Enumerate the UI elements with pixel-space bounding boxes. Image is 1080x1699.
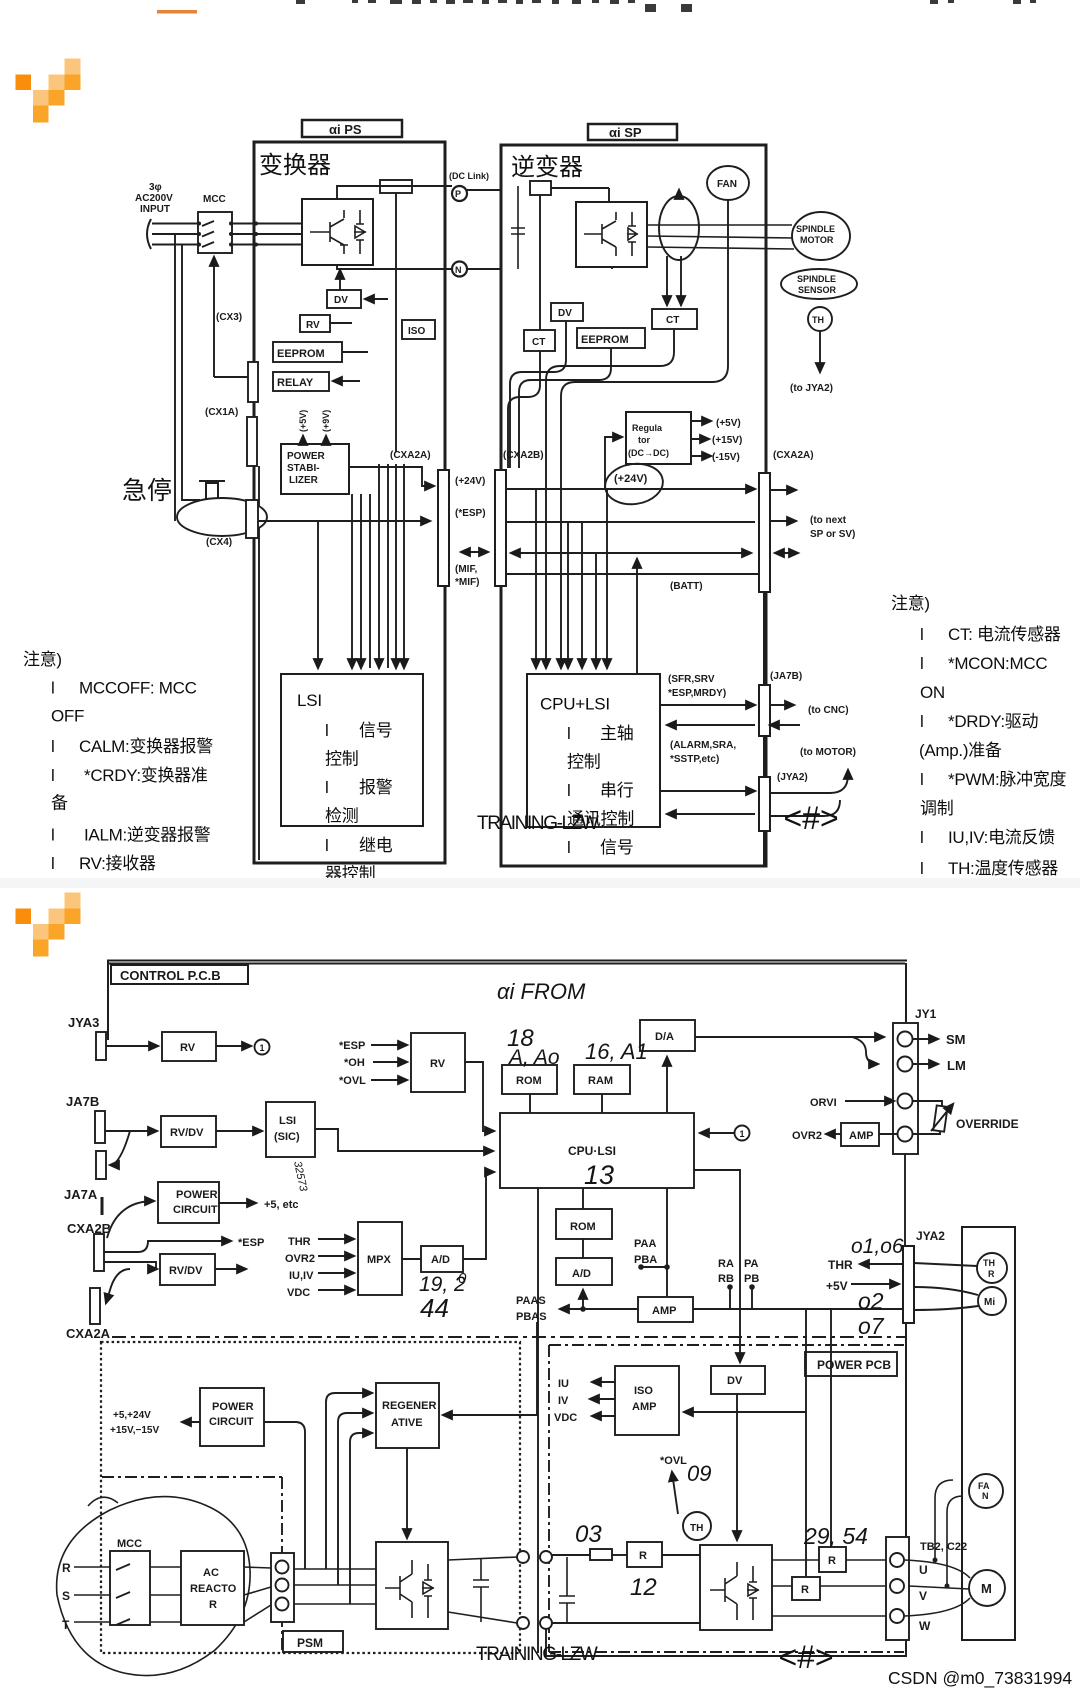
svg-text:TB2, C22: TB2, C22 — [920, 1541, 967, 1553]
svg-text:CSDN @m0_73831994: CSDN @m0_73831994 — [888, 1668, 1072, 1689]
svg-text:(+15V): (+15V) — [712, 435, 742, 446]
svg-text:(to next: (to next — [810, 515, 847, 526]
svg-text:13: 13 — [584, 1160, 614, 1190]
svg-text:(SIC): (SIC) — [274, 1131, 300, 1143]
svg-text:l: l — [920, 828, 923, 847]
svg-text:(+5V): (+5V) — [716, 418, 741, 429]
svg-text:调制: 调制 — [920, 799, 953, 818]
svg-text:(JA7B): (JA7B) — [770, 671, 802, 682]
svg-text:1: 1 — [260, 1043, 265, 1053]
svg-text:JA7B: JA7B — [66, 1094, 99, 1109]
svg-text:TRAINING-LZW: TRAINING-LZW — [477, 813, 599, 834]
svg-text:l: l — [325, 836, 329, 855]
svg-text:1: 1 — [740, 1129, 745, 1139]
svg-text:16, A1: 16, A1 — [585, 1039, 648, 1064]
svg-text:(CXA2A): (CXA2A) — [773, 450, 814, 461]
svg-text:l: l — [920, 770, 923, 789]
svg-text:l: l — [567, 781, 571, 800]
svg-text:IU,IV:电流反馈: IU,IV:电流反馈 — [948, 828, 1055, 847]
svg-text:+5V: +5V — [826, 1279, 848, 1293]
svg-text:T: T — [62, 1618, 70, 1632]
svg-text:R: R — [62, 1561, 71, 1575]
svg-text:SPINDLE: SPINDLE — [797, 274, 836, 284]
svg-text:*ESP: *ESP — [238, 1237, 264, 1249]
svg-text:(+9V): (+9V) — [321, 410, 331, 432]
svg-text:ISO: ISO — [634, 1385, 653, 1397]
svg-text:FA: FA — [978, 1481, 990, 1491]
svg-text:STABI-: STABI- — [287, 463, 320, 474]
svg-text:l: l — [920, 712, 923, 731]
svg-text:tor: tor — [638, 435, 650, 445]
svg-text:JYA2: JYA2 — [916, 1229, 945, 1243]
svg-text:PAA: PAA — [634, 1238, 656, 1250]
svg-text:CXA2A: CXA2A — [66, 1326, 111, 1341]
svg-text:o1,o6: o1,o6 — [851, 1235, 904, 1258]
svg-text:SP or SV): SP or SV) — [810, 529, 855, 540]
svg-text:RV:接收器: RV:接收器 — [79, 854, 156, 873]
svg-text:03: 03 — [575, 1521, 602, 1548]
svg-text:0: 0 — [458, 1270, 467, 1287]
svg-text:*SSTP,etc): *SSTP,etc) — [670, 754, 719, 765]
svg-text:AC200V: AC200V — [135, 193, 173, 204]
svg-text:RV: RV — [180, 1042, 196, 1054]
svg-text:(+24V): (+24V) — [614, 473, 648, 485]
svg-text:MCC: MCC — [117, 1538, 142, 1550]
svg-text:RV: RV — [430, 1058, 446, 1070]
svg-text:RV: RV — [306, 320, 320, 331]
svg-text:OVR2: OVR2 — [285, 1253, 315, 1265]
svg-text:*ESP,MRDY): *ESP,MRDY) — [668, 688, 726, 699]
svg-text:l: l — [920, 625, 923, 644]
svg-text:(BATT): (BATT) — [670, 581, 703, 592]
svg-text:(ALARM,SRA,: (ALARM,SRA, — [670, 740, 736, 751]
svg-text:αi PS: αi PS — [329, 122, 362, 137]
svg-text:TH:温度传感器: TH:温度传感器 — [948, 859, 1058, 878]
svg-text:RELAY: RELAY — [277, 377, 314, 389]
svg-text:SENSOR: SENSOR — [798, 285, 837, 295]
svg-text:RV/DV: RV/DV — [170, 1127, 204, 1139]
svg-text:IV: IV — [558, 1395, 569, 1407]
svg-text:REGENER: REGENER — [382, 1400, 436, 1412]
svg-text:A, Ao: A, Ao — [507, 1046, 560, 1069]
svg-text:αi FROM: αi FROM — [497, 979, 586, 1004]
svg-text:INPUT: INPUT — [140, 204, 170, 215]
svg-text:CONTROL P.C.B: CONTROL P.C.B — [120, 968, 221, 983]
svg-text:12: 12 — [630, 1574, 657, 1601]
svg-text:l: l — [51, 766, 54, 785]
svg-text:IALM:逆变器报警: IALM:逆变器报警 — [84, 826, 211, 845]
svg-text:POWER: POWER — [212, 1401, 254, 1413]
svg-text:(DC→DC): (DC→DC) — [628, 448, 669, 458]
svg-text:POWER: POWER — [176, 1189, 218, 1201]
svg-text:RV/DV: RV/DV — [169, 1265, 203, 1277]
svg-text:主轴: 主轴 — [600, 724, 634, 743]
svg-text:信号: 信号 — [600, 838, 634, 857]
svg-text:MCCOFF: MCC: MCCOFF: MCC — [79, 679, 197, 698]
svg-text:IU: IU — [558, 1378, 569, 1390]
svg-text:*OVL: *OVL — [339, 1075, 366, 1087]
svg-text:CT: CT — [666, 315, 679, 326]
svg-text:32573: 32573 — [291, 1160, 309, 1193]
svg-text:RA: RA — [718, 1258, 734, 1270]
svg-text:(Amp.)准备: (Amp.)准备 — [919, 741, 1002, 760]
svg-text:(*ESP): (*ESP) — [455, 508, 486, 519]
svg-text:CPU·LSI: CPU·LSI — [568, 1144, 616, 1158]
svg-text:Mi: Mi — [984, 1297, 995, 1308]
svg-text:09: 09 — [687, 1461, 711, 1486]
svg-text:急停: 急停 — [122, 477, 172, 505]
svg-text:逆变器: 逆变器 — [511, 154, 583, 181]
svg-text:(to MOTOR): (to MOTOR) — [800, 747, 856, 758]
svg-text:(JYA2): (JYA2) — [777, 772, 808, 783]
svg-text:注意): 注意) — [891, 594, 930, 613]
svg-text:CT: CT — [532, 337, 545, 348]
svg-text:PBAS: PBAS — [516, 1311, 547, 1323]
svg-text:(CX1A): (CX1A) — [205, 407, 238, 418]
svg-text:CIRCUIT: CIRCUIT — [173, 1204, 218, 1216]
svg-text:PB: PB — [744, 1273, 759, 1285]
svg-text:(+5V): (+5V) — [298, 410, 308, 432]
svg-text:SM: SM — [946, 1032, 966, 1047]
svg-text:OFF: OFF — [51, 707, 84, 726]
svg-text:THR: THR — [288, 1236, 311, 1248]
svg-text:备: 备 — [51, 794, 68, 813]
svg-text:AMP: AMP — [652, 1305, 676, 1317]
svg-text:MPX: MPX — [367, 1254, 392, 1266]
svg-text:44: 44 — [420, 1293, 449, 1323]
svg-text:*DRDY:驱动: *DRDY:驱动 — [948, 712, 1038, 731]
svg-text:l: l — [51, 826, 54, 845]
svg-text:*OVL: *OVL — [660, 1455, 687, 1467]
svg-text:*PWM:脉冲宽度: *PWM:脉冲宽度 — [948, 770, 1066, 789]
svg-text:VDC: VDC — [287, 1287, 310, 1299]
svg-text:<#>: <#> — [778, 1639, 833, 1675]
svg-text:(SFR,SRV: (SFR,SRV — [668, 674, 715, 685]
svg-text:EEPROM: EEPROM — [581, 334, 629, 346]
svg-text:P: P — [455, 189, 461, 199]
svg-text:ORVI: ORVI — [810, 1097, 837, 1109]
svg-text:l: l — [325, 778, 329, 797]
svg-text:R: R — [828, 1555, 836, 1567]
svg-text:ROM: ROM — [570, 1221, 596, 1233]
svg-text:CT: 电流传感器: CT: 电流传感器 — [948, 625, 1061, 644]
svg-text:DV: DV — [558, 308, 572, 319]
svg-text:CIRCUIT: CIRCUIT — [209, 1416, 254, 1428]
svg-text:3φ: 3φ — [149, 182, 162, 193]
svg-text:*OH: *OH — [344, 1057, 365, 1069]
svg-text:(DC Link): (DC Link) — [449, 171, 489, 181]
svg-text:U: U — [919, 1563, 928, 1577]
svg-text:CPU+LSI: CPU+LSI — [540, 695, 610, 714]
svg-text:(CXA2A): (CXA2A) — [390, 450, 431, 461]
svg-text:ON: ON — [920, 683, 945, 702]
svg-text:JYA3: JYA3 — [68, 1015, 99, 1030]
svg-text:THR: THR — [828, 1258, 853, 1272]
svg-text:REACTO: REACTO — [190, 1583, 237, 1595]
svg-text:N: N — [982, 1491, 989, 1501]
svg-text:OVR2: OVR2 — [792, 1130, 822, 1142]
svg-text:信号: 信号 — [359, 721, 393, 740]
svg-text:TH: TH — [983, 1258, 995, 1268]
svg-text:(MIF,: (MIF, — [455, 564, 477, 575]
svg-text:29, 54: 29, 54 — [803, 1523, 868, 1549]
svg-text:AMP: AMP — [632, 1401, 656, 1413]
svg-text:R: R — [209, 1599, 217, 1611]
svg-text:继电: 继电 — [359, 836, 393, 855]
svg-text:(to JYA2): (to JYA2) — [790, 383, 833, 394]
svg-text:MOTOR: MOTOR — [800, 235, 834, 245]
svg-text:LSI: LSI — [279, 1115, 296, 1127]
svg-text:AMP: AMP — [849, 1130, 873, 1142]
svg-text:R: R — [988, 1269, 995, 1279]
svg-text:PA: PA — [744, 1258, 759, 1270]
svg-text:TRAINING-LZW: TRAINING-LZW — [476, 1644, 598, 1665]
svg-text:M: M — [981, 1581, 992, 1596]
svg-text:控制: 控制 — [325, 750, 359, 769]
svg-text:IU,IV: IU,IV — [289, 1270, 314, 1282]
svg-text:(CX3): (CX3) — [216, 312, 242, 323]
svg-text:PSM: PSM — [297, 1636, 323, 1650]
svg-text:(-15V): (-15V) — [712, 452, 740, 463]
svg-text:o2: o2 — [858, 1288, 884, 1314]
svg-text:AC: AC — [203, 1567, 219, 1579]
svg-text:l: l — [325, 721, 329, 740]
svg-text:JA7A: JA7A — [64, 1187, 98, 1202]
svg-text:αi SP: αi SP — [609, 125, 642, 140]
svg-text:TH: TH — [690, 1523, 703, 1534]
svg-text:l: l — [567, 838, 571, 857]
svg-text:*MIF): *MIF) — [455, 577, 479, 588]
svg-text:LIZER: LIZER — [289, 475, 319, 486]
svg-text:A/D: A/D — [572, 1268, 591, 1280]
svg-text:FAN: FAN — [717, 179, 737, 190]
svg-text:OVERRIDE: OVERRIDE — [956, 1117, 1019, 1131]
svg-text:ISO: ISO — [408, 326, 425, 337]
svg-text:JY1: JY1 — [915, 1007, 937, 1021]
svg-text:DV: DV — [727, 1375, 743, 1387]
svg-text:变换器: 变换器 — [259, 152, 331, 179]
svg-text:注意): 注意) — [23, 650, 62, 669]
svg-text:EEPROM: EEPROM — [277, 348, 325, 360]
svg-text:*ESP: *ESP — [339, 1040, 365, 1052]
svg-text:MCC: MCC — [203, 194, 226, 205]
svg-text:LSI: LSI — [297, 691, 322, 710]
svg-text:PAAS: PAAS — [516, 1295, 546, 1307]
svg-text:TH: TH — [812, 315, 824, 325]
svg-text:+15V,−15V: +15V,−15V — [110, 1425, 159, 1436]
svg-text:S: S — [62, 1589, 70, 1603]
svg-text:l: l — [51, 737, 54, 756]
svg-text:l: l — [920, 859, 923, 878]
svg-text:*CRDY:变换器准: *CRDY:变换器准 — [84, 766, 208, 785]
svg-text:l: l — [567, 724, 571, 743]
svg-text:PBA: PBA — [634, 1254, 657, 1266]
svg-text:(+24V): (+24V) — [455, 476, 485, 487]
svg-text:R: R — [801, 1584, 809, 1596]
svg-text:POWER: POWER — [287, 451, 326, 462]
svg-text:检测: 检测 — [325, 807, 359, 826]
svg-text:(CXA2B): (CXA2B) — [503, 450, 544, 461]
svg-text:+5,+24V: +5,+24V — [113, 1410, 151, 1421]
svg-text:串行: 串行 — [600, 781, 634, 800]
svg-text:<#>: <#> — [783, 800, 838, 836]
svg-text:N: N — [455, 265, 462, 275]
svg-text:RB: RB — [718, 1273, 734, 1285]
svg-text:Regula: Regula — [632, 423, 663, 433]
svg-text:CALM:变换器报警: CALM:变换器报警 — [79, 737, 213, 756]
svg-text:(to CNC): (to CNC) — [808, 705, 849, 716]
svg-text:A/D: A/D — [431, 1254, 450, 1266]
svg-text:R: R — [639, 1550, 647, 1562]
svg-text:l: l — [51, 854, 54, 873]
svg-text:*MCON:MCC: *MCON:MCC — [948, 654, 1047, 673]
svg-text:SPINDLE: SPINDLE — [796, 224, 835, 234]
svg-text:RAM: RAM — [588, 1075, 613, 1087]
svg-text:VDC: VDC — [554, 1412, 577, 1424]
svg-text:o7: o7 — [858, 1313, 885, 1339]
svg-text:DV: DV — [334, 295, 348, 306]
svg-text:(CX4): (CX4) — [206, 537, 232, 548]
svg-text:W: W — [919, 1619, 931, 1633]
svg-text:LM: LM — [947, 1058, 966, 1073]
svg-text:控制: 控制 — [567, 753, 601, 772]
svg-text:l: l — [920, 654, 923, 673]
svg-text:CXA2B: CXA2B — [67, 1221, 111, 1236]
svg-text:报警: 报警 — [359, 778, 393, 797]
svg-text:POWER PCB: POWER PCB — [817, 1358, 891, 1372]
svg-text:D/A: D/A — [655, 1031, 674, 1043]
svg-text:V: V — [919, 1589, 927, 1603]
svg-text:ATIVE: ATIVE — [391, 1417, 423, 1429]
svg-text:l: l — [51, 679, 54, 698]
svg-text:ROM: ROM — [516, 1075, 542, 1087]
svg-text:+5, etc: +5, etc — [264, 1199, 299, 1211]
